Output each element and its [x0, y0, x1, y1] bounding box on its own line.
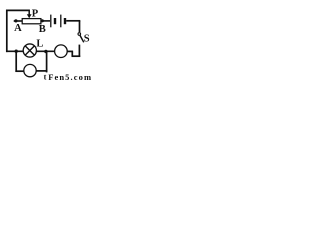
wire meter to jog: [67, 50, 73, 52]
svg-text:B: B: [39, 24, 46, 35]
svg-text:L: L: [36, 38, 43, 49]
wire bottom right horizontal: [72, 55, 81, 57]
battery cell 1 short plate: [54, 18, 56, 24]
battery cell 2 long plate: [60, 15, 62, 28]
lamp L: [23, 44, 36, 57]
wire left vertical: [6, 10, 8, 53]
wire branch right vertical: [46, 52, 48, 73]
wire branch left vertical: [15, 51, 17, 72]
wire right vertical down to switch: [79, 21, 81, 32]
node A terminal dot: [14, 19, 17, 22]
wire branch bottom left: [15, 70, 24, 72]
wire branch bottom right: [36, 70, 47, 72]
wire lamp to meter: [36, 50, 55, 52]
node junction dot left: [15, 50, 18, 53]
node junction dot right: [44, 50, 47, 53]
node B terminal dot: [41, 19, 44, 22]
switch S pivot contact: [78, 33, 81, 36]
svg-text:Fen5.com: Fen5.com: [48, 72, 92, 82]
battery cell 2 short plate: [64, 18, 66, 24]
meter (blank circle) M2: [24, 64, 36, 76]
wire lead terminal B to battery: [41, 20, 50, 22]
wire battery to right corner: [66, 20, 80, 22]
meter (blank circle) M1: [55, 45, 68, 58]
wire lead terminal A: [14, 20, 22, 22]
svg-text:t: t: [44, 73, 47, 82]
svg-text:S: S: [84, 33, 90, 44]
switch S blade: [80, 35, 84, 42]
wire switch bottom: [78, 45, 80, 57]
svg-text:A: A: [14, 23, 22, 34]
battery cell 1 long plate: [50, 15, 52, 28]
rheostat slider arrow: [27, 10, 32, 18]
wire top horizontal: [6, 9, 30, 11]
wire bottom main left: [6, 50, 23, 52]
svg-text:P: P: [32, 8, 39, 19]
wire jog vertical: [71, 52, 73, 57]
resistor (rheostat body) R: [22, 19, 41, 24]
